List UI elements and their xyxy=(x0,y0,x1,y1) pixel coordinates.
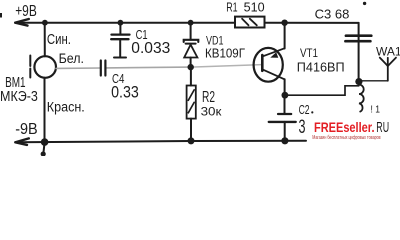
wire gray VD1 node to VT1 base xyxy=(191,65,262,68)
wire collector node to L1 node xyxy=(285,86,359,95)
transistor VT1 base bar xyxy=(261,55,264,71)
transistor VT1 circle xyxy=(254,48,283,82)
svg-text:МКЭ-3: МКЭ-3 xyxy=(0,88,38,105)
svg-text:Син.: Син. xyxy=(47,31,71,48)
svg-text:R1: R1 xyxy=(226,0,237,14)
label C2 period speck xyxy=(311,111,313,113)
wire mic bottom lead (Krasn.) xyxy=(44,78,46,142)
microphone membrane dash upper xyxy=(29,56,31,67)
svg-text:R2: R2 xyxy=(202,89,215,106)
capacitor C2 top plate xyxy=(278,113,291,115)
wire node to antenna xyxy=(359,80,388,82)
resistor R1 body xyxy=(235,17,265,28)
capacitor C1 top plate xyxy=(112,33,130,35)
svg-text:RU: RU xyxy=(376,120,389,136)
capacitor C4 left plate xyxy=(100,61,102,76)
capacitor C3 bottom plate xyxy=(345,40,370,43)
wire R2 bottom lead xyxy=(190,119,192,141)
antenna WA1 left arm xyxy=(380,58,388,66)
svg-text:VT1: VT1 xyxy=(300,48,318,60)
resistor R1 slash 2 xyxy=(250,19,257,26)
antenna WA1 stem xyxy=(387,58,389,81)
junction VD1 top xyxy=(188,20,194,26)
svg-text:Магазин бесплатных цифровых то: Магазин бесплатных цифровых товаров xyxy=(312,135,381,141)
wire gray C4 to VD1 node xyxy=(106,66,191,69)
svg-text:П416ВП: П416ВП xyxy=(297,61,345,75)
wire node to R2 xyxy=(190,67,192,85)
resistor R2 body xyxy=(187,86,196,119)
svg-text:Красн.: Красн. xyxy=(47,99,85,114)
resistor R2 slash upper xyxy=(188,90,194,101)
transistor VT1 emitter line xyxy=(263,48,285,56)
svg-text:! 1: ! 1 xyxy=(371,104,381,116)
junction R1 right / VT1 emitter xyxy=(281,20,287,26)
wire top rail left xyxy=(15,22,235,24)
inductor L1 coil xyxy=(359,85,364,112)
wire collector down xyxy=(284,79,286,95)
wire mic output gray (Bel.) xyxy=(56,67,100,69)
svg-text:510: 510 xyxy=(244,0,265,14)
microphone membrane dash lower xyxy=(29,69,31,78)
capacitor C2 top lead xyxy=(284,95,286,114)
junction C1 top xyxy=(118,20,124,26)
capacitor C1 bottom plate xyxy=(111,38,128,40)
varactor VD1 triangle xyxy=(184,45,197,58)
junction collector node xyxy=(282,92,289,99)
varactor VD1 cathode bar xyxy=(184,40,199,42)
capacitor C2 bottom lead xyxy=(284,122,286,141)
wire mic top lead (Sin.) xyxy=(44,23,46,57)
svg-text:30к: 30к xyxy=(201,105,223,119)
junction VD1 anode node xyxy=(188,64,194,70)
wire stub below bottom rail xyxy=(43,142,44,153)
junction bottom C2 xyxy=(281,137,288,144)
svg-text:C2: C2 xyxy=(299,102,310,117)
junction mic top xyxy=(42,20,48,26)
svg-text:3: 3 xyxy=(299,117,306,138)
wire top rail right xyxy=(265,22,359,24)
node -9V arrow xyxy=(15,138,28,145)
antenna WA1 right arm xyxy=(388,58,396,66)
svg-text:Бел.: Бел. xyxy=(59,50,84,66)
wire emitter to top rail xyxy=(284,23,286,49)
resistor R2 slash lower xyxy=(188,102,194,113)
varactor VD1 second bar xyxy=(186,43,196,45)
speck artifact top right xyxy=(363,2,366,5)
wire top rail corner to C3 xyxy=(358,23,360,82)
junction L1 antenna node xyxy=(355,78,362,85)
speck artifact left edge xyxy=(0,13,2,18)
node +9V arrow xyxy=(15,19,28,26)
capacitor C4 right plate xyxy=(104,61,106,76)
svg-text:КВ109Г: КВ109Г xyxy=(205,46,245,60)
wire bottom rail xyxy=(15,141,306,143)
svg-text:C3 68: C3 68 xyxy=(315,6,350,21)
microphone BM1 circle xyxy=(34,56,56,78)
capacitor C3 top plate xyxy=(346,34,371,37)
svg-text:FREEseller.: FREEseller. xyxy=(314,119,375,135)
svg-text:0.033: 0.033 xyxy=(131,40,170,57)
transistor VT1 collector line xyxy=(263,70,285,80)
svg-text:+9В: +9В xyxy=(15,3,37,20)
transistor VT1 emitter arrow xyxy=(270,52,278,58)
svg-text:-9В: -9В xyxy=(15,121,38,138)
capacitor C1 bottom lead xyxy=(119,39,121,57)
junction bottom mic xyxy=(41,138,49,146)
varactor VD1 top lead xyxy=(190,23,192,40)
capacitor C1 end bar xyxy=(114,57,126,59)
resistor R1 slash 1 xyxy=(242,19,248,26)
junction bottom R2 xyxy=(188,137,195,144)
capacitor C1 top lead xyxy=(119,23,121,35)
svg-text:0.33: 0.33 xyxy=(111,82,139,101)
node stub dot xyxy=(41,151,46,156)
svg-text:WA1: WA1 xyxy=(376,44,400,58)
varactor VD1 bottom lead xyxy=(190,58,192,68)
capacitor C2 bottom plate xyxy=(269,121,296,123)
